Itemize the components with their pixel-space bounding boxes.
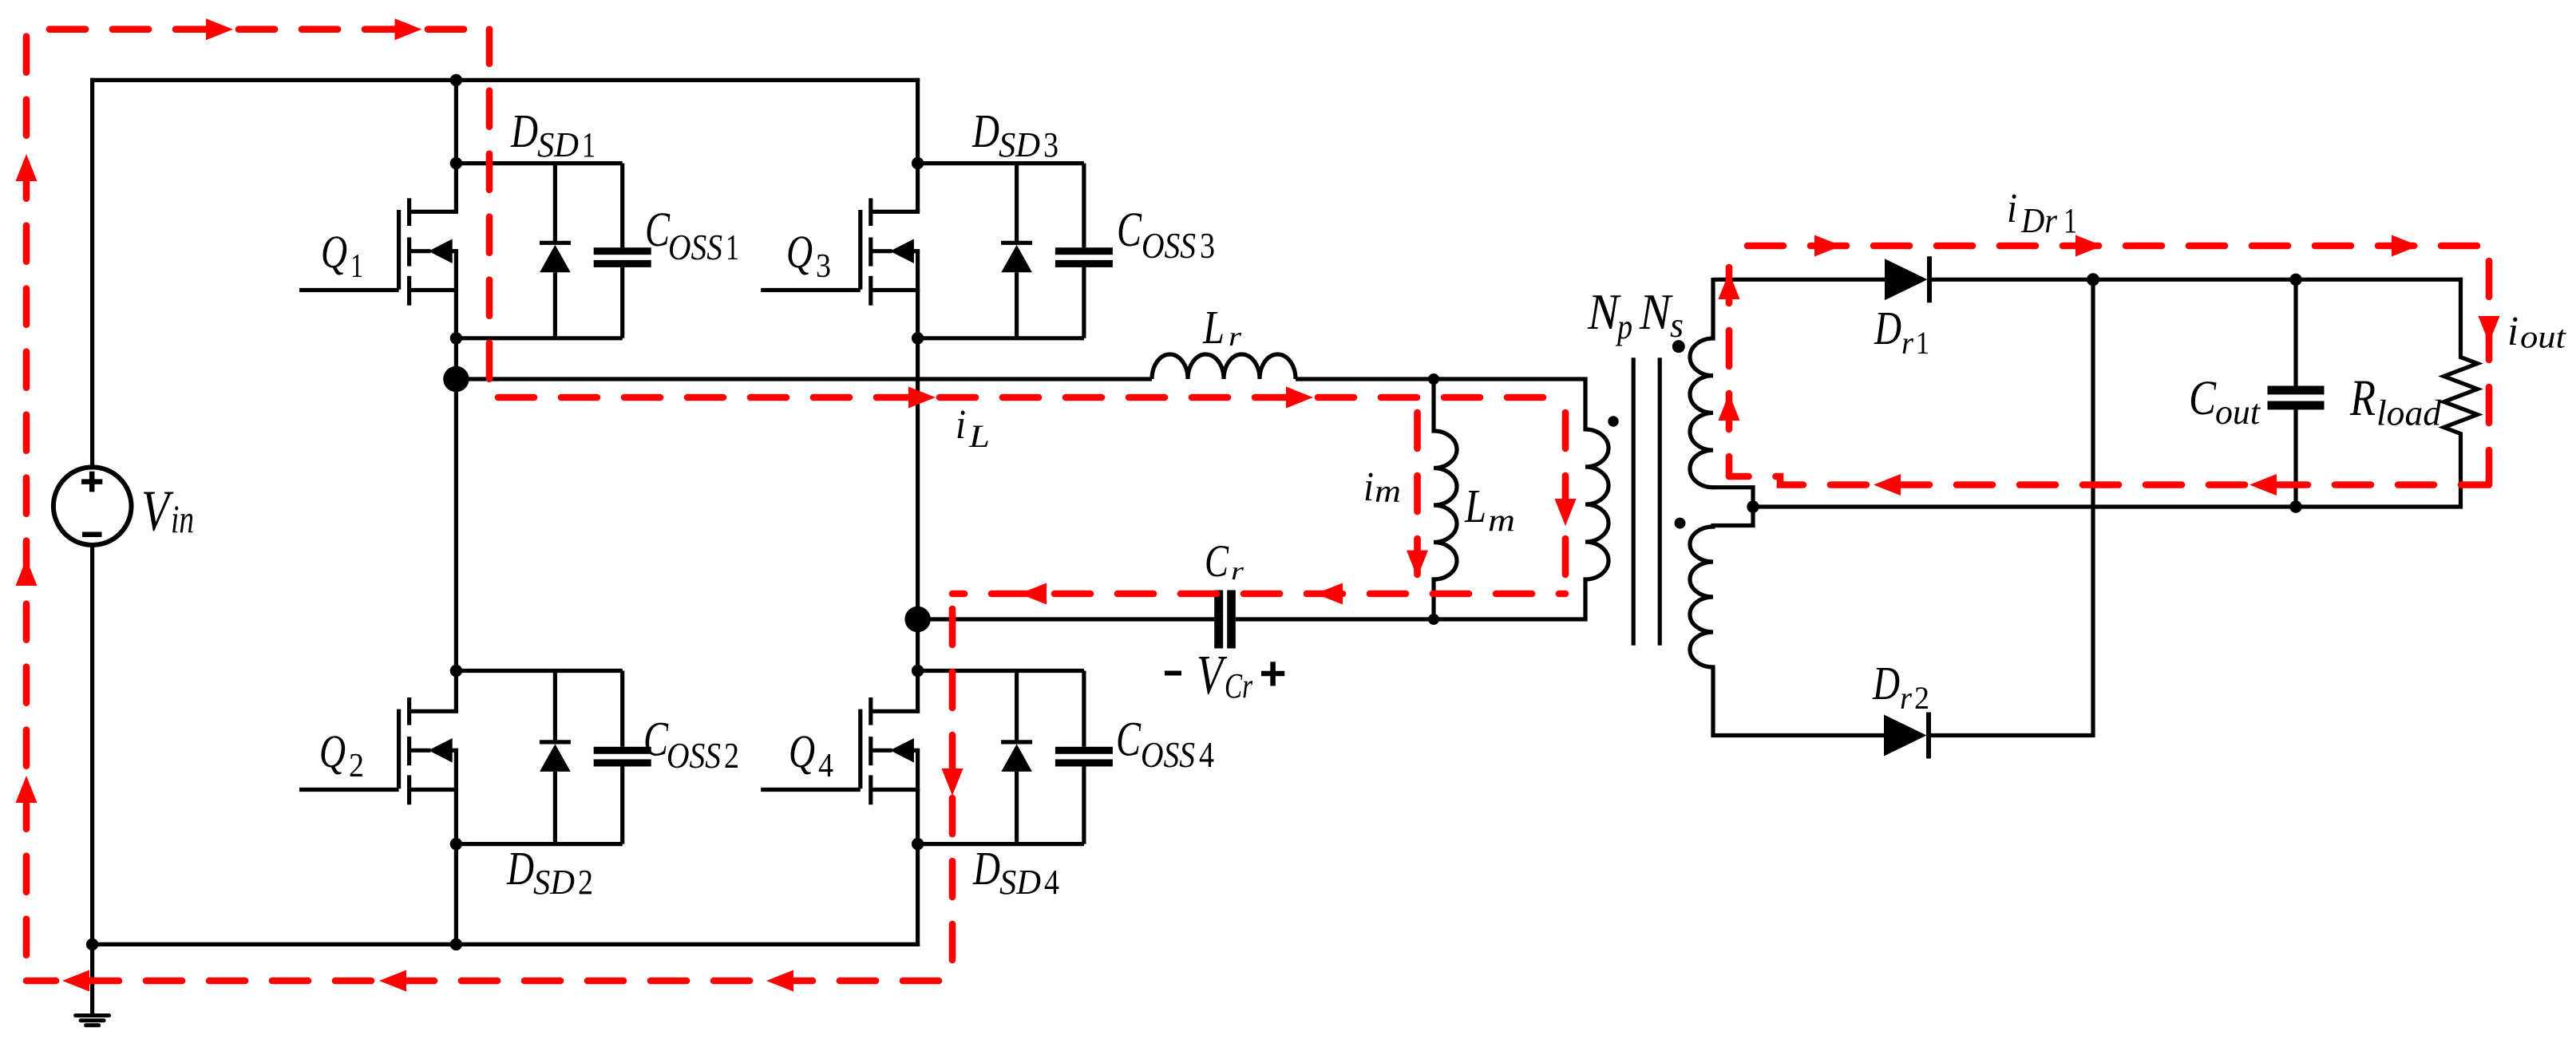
svg-text:Q: Q [319, 725, 346, 777]
transistor Q2 (MOSFET) [299, 697, 458, 804]
svg-text:r: r [1229, 322, 1242, 352]
svg-text:i: i [2007, 186, 2017, 231]
transformer core line 1 [1632, 358, 1636, 646]
svg-text:Q: Q [321, 226, 347, 278]
transformer core line 2 [1658, 358, 1662, 646]
svg-text:3: 3 [1200, 225, 1215, 266]
diode D_SD1 (body diode) [540, 164, 571, 338]
primary polarity dot [1608, 416, 1618, 426]
wire D_SD2/C_OSS2 branch top [456, 669, 622, 673]
wire D_SD3/C_OSS3 branch bottom [918, 336, 1084, 340]
node D_SD4 branch bottom [912, 838, 924, 850]
red arrow down pri [1555, 499, 1577, 526]
svg-text:C: C [645, 203, 671, 257]
wire D_SD2/C_OSS2 branch bottom [456, 842, 622, 846]
red arrow up left 1 [16, 154, 38, 181]
wire D_SD1/C_OSS1 branch top [456, 161, 622, 165]
V_in minus sign [82, 531, 102, 537]
wire D_SD4/C_OSS4 branch top [918, 669, 1084, 673]
node D_SD2 branch bottom [450, 838, 462, 850]
svg-text:Q: Q [789, 725, 815, 777]
node D_SD3 branch top [912, 157, 924, 169]
red arrow down im [1407, 551, 1428, 578]
capacitor C_OSS1 [594, 164, 651, 338]
red dashed path: output return line [1729, 476, 2489, 485]
wire column1 top (rail to Q1 drain) [454, 80, 458, 211]
svg-text:Dr: Dr [2020, 201, 2058, 240]
red arrow up left 3 [16, 776, 38, 803]
svg-text:m: m [1488, 502, 1515, 538]
svg-text:L: L [1202, 301, 1225, 354]
inductor L_m [1434, 379, 1457, 619]
node D_SD1 branch bottom [450, 332, 462, 344]
svg-text:4: 4 [818, 748, 833, 784]
svg-text:R: R [2349, 369, 2376, 427]
wire left rail lower (Vin to bottom rail) [90, 545, 94, 944]
red dashed path: i_Dr1 top line [1729, 243, 2489, 250]
capacitor C_OSS3 [1055, 164, 1113, 338]
diode D_r2 [1884, 713, 1929, 759]
red dashed path: down between Lm and primary [1562, 397, 1569, 594]
svg-text:OSS: OSS [667, 735, 721, 776]
wire node A to L_r [456, 377, 1152, 381]
red arrow left bottom 2 [379, 970, 406, 992]
red dashed path: V_in loop left vertical [23, 30, 30, 981]
wire D_r1 to output top corner [1931, 278, 2463, 282]
capacitor C_out [2268, 386, 2325, 410]
svg-text:C: C [1205, 536, 1229, 587]
svg-text:OSS: OSS [668, 227, 722, 267]
wire C_out branch bottom [2293, 409, 2297, 507]
red arrow right top 2 [395, 18, 422, 40]
svg-text:out: out [2520, 319, 2566, 355]
svg-text:SD: SD [533, 863, 575, 902]
label -V_Cr+ minus [1165, 671, 1181, 676]
capacitor C_OSS4 [1055, 671, 1113, 844]
wire top rail [90, 78, 920, 82]
svg-text:p: p [1615, 307, 1632, 346]
svg-text:2: 2 [349, 748, 364, 784]
red arrow right iDr1 2 [2075, 235, 2103, 257]
svg-text:2: 2 [578, 863, 593, 902]
transistor Q3 (MOSFET) [761, 198, 920, 305]
node D_SD3 branch bottom [912, 332, 924, 344]
svg-text:V: V [141, 479, 174, 543]
red arrow left Cr 1 [1019, 583, 1047, 605]
svg-text:OSS: OSS [1141, 734, 1195, 775]
secondary polarity dot top [1672, 340, 1685, 353]
red arrow left Cr 2 [1316, 583, 1343, 605]
svg-text:C: C [1116, 713, 1142, 767]
diode D_SD4 (body diode) [1001, 671, 1032, 844]
red dashed path: i_m branch [1414, 397, 1421, 594]
svg-text:OSS: OSS [1142, 225, 1196, 266]
wire cathode bus vertical (D_r1 node to D_r2) [2091, 279, 2095, 735]
svg-text:N: N [1587, 284, 1621, 340]
V_in plus sign [81, 472, 102, 492]
svg-text:1: 1 [1916, 325, 1929, 361]
red dashed path: i_out right vertical [2486, 246, 2493, 485]
svg-text:3: 3 [1043, 125, 1058, 164]
transformer secondary winding N_s top half [1690, 278, 1753, 508]
red arrow left return 2 [2250, 474, 2277, 496]
svg-text:3: 3 [816, 248, 831, 285]
svg-text:r: r [1901, 325, 1913, 361]
svg-text:SD: SD [999, 863, 1041, 902]
node D_SD4 branch top [912, 665, 924, 677]
svg-text:D: D [972, 842, 1000, 895]
wire node B to C_r [918, 617, 1215, 621]
red dashed path: C_r return line [952, 591, 1565, 598]
diode D_r1 [1885, 256, 1929, 302]
node B (bridge midpoint 2) [904, 606, 930, 632]
svg-text:1: 1 [726, 227, 739, 267]
ground bar 2 [81, 1018, 104, 1022]
secondary polarity dot bottom [1675, 518, 1686, 529]
ground stem [90, 944, 94, 1013]
red arrow up left 2 [16, 559, 38, 586]
node bottom rail / left rail [86, 938, 98, 950]
diode D_SD2 (body diode) [540, 671, 571, 844]
node top rail / column1 [450, 74, 462, 86]
transistor Q1 (MOSFET) [299, 198, 458, 305]
wire C_out branch top [2293, 279, 2297, 386]
wire D_r2 to cathode bus [1930, 733, 2095, 737]
svg-text:i: i [956, 402, 966, 448]
transistor Q4 (MOSFET) [761, 697, 920, 804]
wire column1 mid (Q1 body to Q2 drain lead) [454, 251, 458, 712]
svg-text:Cr: Cr [1225, 666, 1253, 705]
svg-text:1: 1 [350, 248, 363, 285]
svg-text:D: D [971, 105, 999, 157]
red arrow right iL 2 [1286, 387, 1313, 409]
wire C_r to L_m bottom [1236, 617, 1588, 621]
wire bottom rail [90, 942, 920, 946]
svg-text:D: D [1874, 302, 1901, 354]
red arrow left return 1 [1874, 474, 1901, 496]
wire column2 bottom (Q4 body to bottom rail) [916, 750, 920, 946]
svg-text:r: r [1231, 556, 1244, 585]
svg-text:2: 2 [724, 735, 739, 776]
wire L_r to primary [1296, 377, 1588, 381]
red arrow left bottom 1 [62, 970, 89, 992]
node D_r1 cathode junction [2087, 273, 2099, 286]
resistor R_load and right output wire [2444, 278, 2478, 507]
node C_out bottom [2289, 500, 2301, 512]
ground bar 3 [86, 1023, 99, 1027]
red dashed path: down Q4 column [949, 594, 956, 981]
svg-text:load: load [2376, 393, 2442, 433]
transformer secondary winding N_s bottom half [1690, 508, 1753, 736]
red arrow right iDr1 3 [2392, 235, 2419, 257]
svg-text:1: 1 [582, 125, 596, 164]
red dashed path: down Q1 column region [486, 30, 493, 384]
voltage source V_in circle [53, 467, 132, 545]
capacitor C_r [1214, 591, 1236, 649]
svg-text:D: D [1872, 657, 1900, 709]
node D_SD1 branch top [450, 157, 462, 169]
svg-text:i: i [1363, 464, 1374, 510]
inductor L_r [1152, 354, 1296, 379]
red arrow right top 1 [206, 18, 233, 40]
svg-text:s: s [1670, 306, 1684, 345]
red dashed path: V_in loop top [26, 26, 489, 33]
svg-text:out: out [2215, 393, 2261, 432]
label -V_Cr+ plus [1261, 662, 1284, 685]
svg-text:V: V [1197, 645, 1228, 706]
svg-text:C: C [1117, 203, 1142, 257]
transformer primary winding N_p [1585, 379, 1609, 619]
wire column1 bottom (Q2 body to bottom rail) [454, 750, 458, 944]
capacitor C_OSS2 [594, 671, 651, 844]
svg-text:2: 2 [1914, 680, 1929, 716]
red dashed path: secondary vertical up [1726, 246, 1733, 476]
wire center tap to output bottom [1753, 504, 2463, 508]
red arrow right iL 1 [908, 387, 936, 409]
node bottom rail / column1 [450, 938, 462, 950]
svg-text:Q: Q [786, 226, 813, 278]
svg-text:L: L [1464, 480, 1486, 532]
wire secondary top to D_r1 [1713, 278, 1886, 282]
svg-text:4: 4 [1199, 734, 1214, 775]
svg-text:SD: SD [999, 125, 1040, 164]
svg-text:D: D [506, 842, 534, 895]
svg-text:C: C [643, 713, 669, 767]
wire column2 top (rail corner to Q3 drain) [916, 78, 920, 211]
svg-text:m: m [1375, 473, 1401, 509]
red arrow up sec 2 [1719, 393, 1740, 421]
svg-text:L: L [968, 418, 990, 454]
node L_m top [1428, 373, 1439, 385]
wire D_SD4/C_OSS4 branch bottom [918, 842, 1084, 846]
diode D_SD3 (body diode) [1001, 164, 1032, 338]
wire D_SD1/C_OSS1 branch bottom [456, 336, 622, 340]
ground bar 1 [76, 1013, 109, 1017]
red arrow down Q4 [942, 768, 964, 796]
red arrow right iDr1 1 [1814, 235, 1842, 257]
svg-text:N: N [1639, 284, 1673, 340]
node L_m bottom [1428, 614, 1439, 625]
red arrow down iout [2479, 316, 2500, 343]
node A (bridge midpoint 1) [443, 366, 469, 392]
svg-text:i: i [2507, 309, 2519, 354]
svg-text:D: D [510, 105, 538, 157]
node center tap [1747, 500, 1759, 512]
red arrow up sec 1 [1719, 272, 1740, 299]
wire column2 mid (Q3 body to Q4 drain lead) [916, 251, 920, 712]
svg-text:1: 1 [2064, 201, 2077, 240]
wire D_SD3/C_OSS3 branch top [918, 161, 1084, 165]
wire left rail upper (Vin to top rail) [90, 78, 94, 468]
svg-text:C: C [2189, 372, 2217, 425]
wire secondary bottom to D_r2 [1711, 733, 1885, 737]
red dashed path: V_in loop bottom [26, 978, 952, 985]
svg-text:SD: SD [537, 125, 579, 164]
node C_out top [2289, 274, 2301, 286]
svg-text:r: r [1900, 680, 1912, 716]
red arrow left bottom 3 [766, 970, 793, 992]
node D_SD2 branch top [450, 665, 462, 677]
red dashed path: i_L line [489, 394, 1565, 401]
svg-text:4: 4 [1044, 863, 1059, 902]
svg-text:in: in [171, 496, 194, 541]
